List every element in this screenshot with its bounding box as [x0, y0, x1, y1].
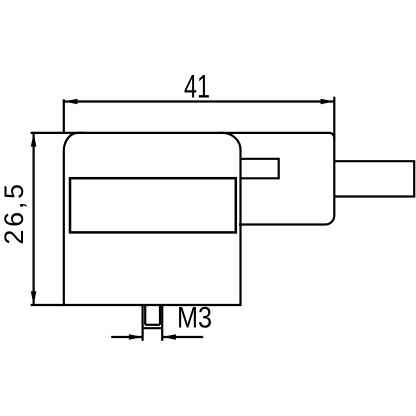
- M3 screw stub inner left line: [144, 305, 146, 325]
- extension line right for 41: [333, 97, 335, 140]
- arrowhead M3 left: [129, 334, 143, 339]
- M3 screw chamfer line: [145, 324, 160, 326]
- M3 screw stub left thread line + extension line: [142, 305, 144, 341]
- cable: [334, 161, 414, 196]
- arrowhead M3 right: [162, 334, 176, 339]
- extension line bottom for 26,5: [31, 304, 64, 306]
- arrowhead 26,5 down: [31, 291, 37, 305]
- window on body: [70, 178, 236, 232]
- arrowhead 41 right: [321, 99, 335, 105]
- tab on housing: [241, 159, 279, 179]
- svg-text:M3: M3: [177, 302, 212, 335]
- M3 screw stub inner right line: [159, 305, 161, 325]
- M3 screw stub right thread line + extension line: [161, 305, 163, 341]
- dimension line 26,5: [32, 133, 34, 305]
- svg-text:26,5: 26,5: [0, 181, 29, 244]
- arrowhead 26,5 up: [31, 133, 37, 147]
- svg-text:41: 41: [184, 69, 210, 105]
- dimension line M3 right segment: [162, 336, 203, 338]
- connector body outline: [64, 133, 241, 305]
- extension line left for 41: [63, 99, 65, 134]
- extension line top for 26,5: [31, 132, 85, 134]
- arrowhead 41 left: [64, 99, 78, 105]
- dimension line 41: [64, 100, 335, 102]
- cable housing outline: [219, 133, 334, 225]
- M3 screw bottom cap: [143, 327, 163, 329]
- dimension line M3 left segment: [111, 336, 142, 338]
